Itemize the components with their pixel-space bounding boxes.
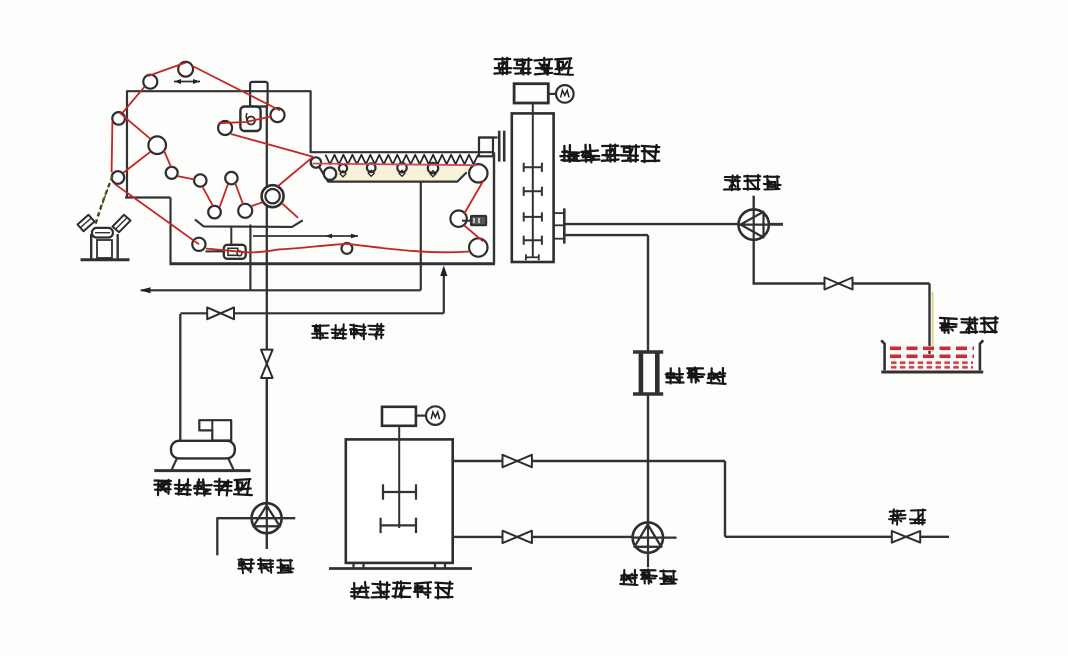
chute flange bars bbox=[498, 131, 501, 162]
red filter belt lower run bbox=[206, 244, 470, 253]
cleaning pump (清洗泵) bbox=[252, 503, 282, 533]
roller r3 bbox=[225, 172, 237, 184]
raw sludge tank (原污泥) bbox=[881, 340, 884, 370]
roller (bottom-left) bbox=[192, 238, 205, 251]
upper chemical pipe bbox=[453, 460, 725, 462]
conveyor belt capsule bbox=[92, 228, 113, 238]
wash water source stub bbox=[216, 517, 218, 555]
metering pump (计量泵) bbox=[633, 522, 663, 552]
roller (right bottom) bbox=[469, 238, 487, 256]
press outlet chute bbox=[479, 136, 498, 138]
pipe flow meter to metering pump bbox=[647, 395, 649, 524]
red filter belt left loop bbox=[123, 87, 145, 113]
label 供水 bbox=[889, 509, 925, 525]
cake discharge conveyor idler (left) bbox=[78, 215, 95, 231]
label 空气压缩机 bbox=[154, 479, 252, 496]
pipe vessel to flow meter bbox=[566, 234, 649, 236]
red filter belt upper loop bbox=[148, 63, 186, 77]
valve on wash line (vertical) bbox=[261, 350, 273, 364]
mixer paddles bbox=[524, 166, 542, 168]
gravity zone deck bbox=[319, 166, 467, 181]
roller (mid-bottom small) bbox=[342, 243, 353, 254]
flocculation mixer vessel bbox=[512, 113, 554, 262]
belt tension box (upper) bbox=[240, 107, 260, 132]
tank mixer shaft bbox=[398, 426, 400, 528]
roller r5 bbox=[238, 204, 252, 218]
label 污泥泵 bbox=[724, 175, 781, 190]
roller (left edge upper) bbox=[112, 112, 125, 125]
conveyor ground line bbox=[81, 258, 130, 261]
mixer motor M symbol bbox=[548, 93, 556, 95]
wash pipe lower bbox=[266, 378, 268, 549]
roller r4 bbox=[208, 206, 221, 219]
label 至气控柜 bbox=[312, 324, 384, 340]
belt guide box (lower) bbox=[224, 245, 246, 259]
filtrate collection tray bbox=[195, 219, 303, 227]
label 药液混合器 bbox=[351, 581, 453, 598]
roller r2 bbox=[194, 174, 206, 186]
roller (right mid) bbox=[450, 211, 466, 227]
valve on sludge suction bbox=[825, 278, 839, 290]
belt tensioner cylinder bbox=[250, 82, 268, 107]
gravity zone sawtooth screen bbox=[326, 155, 479, 164]
label 清洗泵 bbox=[238, 558, 293, 573]
press drain line with arrow bbox=[141, 289, 421, 291]
roller (near tension box) bbox=[218, 121, 232, 135]
gravity zone small rollers bbox=[311, 157, 321, 167]
press inner support column x=420 bbox=[420, 183, 422, 291]
belt direction arrow (top) bbox=[174, 81, 200, 83]
tank ground line bbox=[329, 567, 472, 570]
roller (big left) bbox=[148, 136, 166, 154]
mixer shaft bbox=[532, 103, 534, 258]
lower chemical pipe bbox=[453, 536, 633, 538]
roller (upper mid-right) bbox=[271, 108, 285, 122]
belt filter press frame outline bbox=[127, 91, 494, 197]
compressor riser bbox=[179, 314, 181, 441]
press inner support column x=250 bbox=[249, 225, 251, 291]
conveyor stand bbox=[90, 234, 92, 259]
chemical mixer tank (药液混合器) bbox=[346, 439, 453, 563]
vessel outlet flange bbox=[563, 208, 566, 243]
red filter belt zigzag (press zone) bbox=[177, 176, 195, 180]
roller (left edge lower) bbox=[112, 171, 125, 184]
label 絮凝搅拌器 bbox=[560, 145, 659, 163]
valve on water supply (供水) bbox=[892, 531, 906, 543]
cake discharge conveyor idler (right) bbox=[113, 215, 131, 232]
tank paddles bbox=[383, 491, 416, 493]
roller to guide box link bbox=[206, 250, 225, 252]
label 流量计 bbox=[666, 368, 726, 384]
belt direction arrow (bottom) bbox=[253, 235, 358, 237]
valve on upper chemical pipe bbox=[503, 455, 518, 467]
doctor blade / scraper bbox=[462, 220, 471, 222]
water supply branch bbox=[724, 461, 726, 537]
pipe vessel to sludge pump bbox=[566, 223, 784, 225]
valve on lower chemical pipe bbox=[503, 531, 518, 543]
label 计量泵 bbox=[620, 569, 677, 585]
sludge pump (污泥泵) bbox=[739, 209, 769, 239]
mixer motor box (搅拌电机) bbox=[514, 84, 548, 103]
air compressor (空气压缩机) bbox=[199, 420, 231, 440]
flow meter (流量计) bbox=[639, 352, 644, 395]
roller (upper-left) bbox=[143, 75, 157, 89]
label 搅拌电机 bbox=[494, 58, 573, 75]
pipe shadow (yellow) bbox=[932, 292, 934, 352]
tank feet bbox=[352, 563, 354, 568]
drive roller (double circle) bbox=[262, 185, 284, 207]
roller r1 bbox=[166, 167, 178, 179]
roller (gravity right big) bbox=[469, 164, 487, 182]
falling sludge cake (green dashed) bbox=[95, 176, 113, 227]
red filter belt right loop bbox=[464, 181, 483, 214]
label 原污泥 bbox=[940, 317, 998, 333]
sludge pump riser bbox=[753, 196, 755, 285]
tank motor box bbox=[382, 407, 416, 426]
press central wash-water pipe bbox=[266, 107, 268, 504]
roller (top) bbox=[178, 62, 193, 77]
tank motor M symbol bbox=[416, 415, 426, 417]
valve on air line bbox=[207, 307, 220, 319]
air line to control cabinet (至气控柜) bbox=[180, 312, 444, 314]
pipe pump to tank bbox=[753, 282, 930, 284]
tray support link bbox=[230, 227, 232, 245]
raw sludge (red dashes) bbox=[890, 346, 974, 351]
